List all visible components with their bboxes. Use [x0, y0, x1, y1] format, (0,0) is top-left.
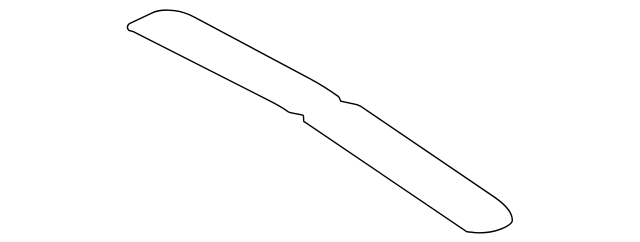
trim strip outline: [127, 10, 512, 233]
